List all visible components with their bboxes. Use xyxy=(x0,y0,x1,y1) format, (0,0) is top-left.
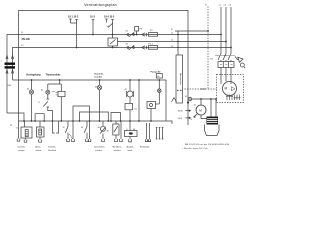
wire phase L3 xyxy=(230,7,232,54)
svg-text:10-3: 10-3 xyxy=(90,16,95,19)
trip flag symbol xyxy=(235,57,243,63)
electrode wires pair xyxy=(145,123,150,142)
electrode rods xyxy=(156,128,164,140)
lamp H3 branch xyxy=(99,79,101,81)
node dots phase taps xyxy=(220,34,222,36)
svg-text:12: 12 xyxy=(63,127,65,129)
bracket to rail xyxy=(35,114,44,121)
disconnect chevrons secondary xyxy=(6,70,14,74)
feed from transformer xyxy=(7,113,24,121)
fuse element F3 above rail xyxy=(135,27,139,32)
transformer T1 core bars xyxy=(5,63,16,65)
control rail 24V top xyxy=(13,80,167,121)
wire terminal to L2 rail xyxy=(76,20,78,48)
earth circle xyxy=(188,97,192,101)
wire L1 rail xyxy=(7,35,221,114)
svg-text:ventil: ventil xyxy=(128,149,133,152)
device BR box xyxy=(147,102,156,109)
overload relay F2 xyxy=(218,62,234,68)
svg-text:Thermorelais: Thermorelais xyxy=(46,74,62,77)
svg-text:60-W: 60-W xyxy=(178,111,183,113)
wire pump feed xyxy=(192,98,216,100)
svg-text:60-V: 60-V xyxy=(178,118,183,120)
motor terminal bars xyxy=(226,95,240,101)
switch S2 on L2 rail xyxy=(127,47,129,49)
branch wire xyxy=(138,79,140,81)
wires to motor xyxy=(220,68,222,85)
svg-text:Verdrahtungsplan: Verdrahtungsplan xyxy=(84,3,117,7)
svg-text:+ Brücke wenn DS Cali: + Brücke wenn DS Cali xyxy=(182,147,208,150)
svg-text:Magnet-: Magnet- xyxy=(127,146,135,149)
svg-text:Vorwahl-: Vorwahl- xyxy=(48,147,56,149)
plug chevron on L2 xyxy=(142,46,147,49)
svg-text:Druckerh.: Druckerh. xyxy=(48,150,57,152)
pump body link xyxy=(201,115,207,119)
wire to terminal xyxy=(88,121,91,142)
svg-text:Elektroden: Elektroden xyxy=(140,146,150,149)
pump stator block xyxy=(207,117,219,125)
pump motor K2 circle xyxy=(200,99,202,105)
wire middle phase from box xyxy=(118,41,227,43)
wire PE dashed to motor xyxy=(185,88,217,90)
svg-text:leuchte: leuchte xyxy=(95,76,103,79)
svg-text:K1: K1 xyxy=(135,109,137,111)
svg-text:f1: f1 xyxy=(39,102,41,104)
svg-text:24V: 24V xyxy=(8,85,12,87)
wire phase L2 xyxy=(225,7,227,54)
svg-text:schalter: schalter xyxy=(114,149,121,152)
svg-text:pumpe: pumpe xyxy=(19,150,26,152)
stub and label 31 xyxy=(17,121,20,141)
svg-text:Vorwahl-: Vorwahl- xyxy=(18,147,26,149)
heater group 2 xyxy=(37,127,45,137)
svg-text:10-4 10-5: 10-4 10-5 xyxy=(104,16,115,19)
node dot xyxy=(112,34,114,36)
open jumper U xyxy=(53,121,59,133)
device U1 box between rails xyxy=(108,38,118,46)
svg-text:M: M xyxy=(225,87,228,91)
disconnect chevrons on transformer primary xyxy=(6,56,14,60)
0V rail xyxy=(19,121,173,124)
wire N drop to level-switch cable xyxy=(177,31,179,55)
node dot at L1 xyxy=(92,34,94,36)
panel enclosure top edge xyxy=(19,11,189,126)
wire to terminal xyxy=(120,121,123,142)
wire to L1 rail xyxy=(112,20,114,35)
wires to pump body xyxy=(210,99,212,117)
wire N link to dashed N xyxy=(175,30,208,32)
thermal contact f1 xyxy=(43,94,52,121)
svg-text:43: 43 xyxy=(81,127,83,129)
pump housing xyxy=(205,125,220,136)
svg-text:45: 45 xyxy=(107,130,109,132)
wire box to L2 rail xyxy=(112,46,114,48)
timer box KT xyxy=(113,124,119,135)
relay K2 coil branch xyxy=(129,79,131,81)
plug chevron on L1 xyxy=(142,33,147,36)
bracket wire xyxy=(80,112,109,121)
svg-text:schutz: schutz xyxy=(36,149,42,152)
float symbol xyxy=(172,98,177,103)
svg-text:Pumpe 60: Pumpe 60 xyxy=(151,71,162,73)
wire terminal to L1 rail xyxy=(92,20,94,35)
motor M1 circle xyxy=(223,82,237,96)
svg-text:Membran-: Membran- xyxy=(113,147,122,149)
svg-text:61: 61 xyxy=(17,128,19,130)
terminal X1-3 xyxy=(92,19,94,21)
wire into box xyxy=(112,35,114,39)
bridge jumper 2 xyxy=(111,113,121,122)
svg-text:10-1 10-2: 10-1 10-2 xyxy=(68,16,79,19)
pressure switch pst xyxy=(60,84,62,91)
terminal X1 pair right xyxy=(105,19,113,23)
lamp H4 branch xyxy=(156,74,162,78)
wire phase L1 xyxy=(220,7,222,54)
level switch cable box xyxy=(176,55,183,103)
bridge jumper 1 xyxy=(73,106,90,121)
node dot at L2 xyxy=(76,47,78,49)
relay module box xyxy=(125,104,133,110)
svg-text:3N 400: 3N 400 xyxy=(22,37,31,41)
lamp H1 branch xyxy=(31,79,33,81)
lamp H2 branch xyxy=(59,79,61,81)
pump arrow xyxy=(194,114,197,118)
svg-text:Niveauregler: Niveauregler xyxy=(179,73,182,85)
wire to terminal xyxy=(72,121,75,142)
svg-text:BR,61,62,65 nur bei DS 6005-63: BR,61,62,65 nur bei DS 6005-6305-S30 xyxy=(185,143,230,146)
svg-text:Schwimmer-: Schwimmer- xyxy=(94,147,105,149)
svg-text:Verriegelung: Verriegelung xyxy=(26,74,41,77)
svg-text:44: 44 xyxy=(98,127,100,129)
svg-text:Kontroll-: Kontroll- xyxy=(95,72,104,75)
wire L2 rail xyxy=(13,48,232,81)
motor dashed enclosure xyxy=(217,75,244,103)
switch contact b1 xyxy=(108,23,113,28)
switch S1 on L1 rail xyxy=(127,34,129,36)
svg-text:Motor-: Motor- xyxy=(35,146,41,149)
wire N dashed xyxy=(207,7,209,90)
terminal X1 pair xyxy=(69,19,77,23)
svg-text:schalter: schalter xyxy=(95,149,102,152)
